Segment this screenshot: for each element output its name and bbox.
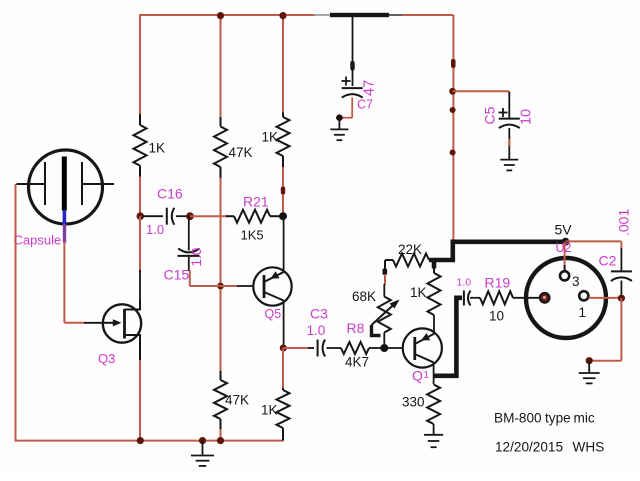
wire C16 left lead [143, 215, 163, 217]
svg-text:C3: C3 [310, 306, 328, 322]
wire C2 bottom lead [620, 281, 622, 298]
capacitor C5 [499, 118, 520, 120]
wire Q5 collector vertical [283, 216, 285, 271]
wire Q5 emitter vertical [283, 301, 285, 349]
transistor Q3 [103, 304, 141, 342]
wire R8 right lead [369, 347, 383, 349]
wire x140 mid [139, 177, 141, 217]
wire C3 left lead [308, 347, 314, 349]
wire y216 to R21 [190, 215, 228, 217]
resistor R21 [234, 210, 270, 223]
svg-text:4K7: 4K7 [345, 355, 369, 370]
node R21 right junction [279, 212, 287, 220]
wire x283 top [282, 14, 284, 113]
wire x283 bottom resistor leads [282, 348, 284, 390]
node top rail x220 [217, 12, 224, 19]
resistor R8 [341, 342, 369, 354]
svg-text:47K: 47K [229, 145, 253, 160]
svg-text:1K5: 1K5 [241, 228, 264, 243]
connector U2 body [526, 258, 606, 338]
wire x220 top [220, 14, 222, 117]
capsule left plate [44, 162, 46, 205]
wire to bottom ground [202, 441, 204, 456]
wire capsule left down [15, 184, 17, 441]
svg-text:330: 330 [402, 395, 425, 410]
svg-text:R21: R21 [243, 194, 269, 210]
wire C5 branch horizontal [453, 90, 510, 92]
node tick x283 [281, 187, 285, 195]
svg-text:1.0: 1.0 [307, 323, 326, 338]
68K wiper arrow [372, 303, 396, 325]
svg-text:1K: 1K [262, 130, 279, 145]
wire x283 to R21 node [282, 167, 284, 216]
node C16 right junction [186, 212, 194, 220]
top bus bar (thick) [330, 13, 389, 17]
capsule blue segment [63, 210, 67, 225]
resistor 330 [427, 385, 440, 425]
capacitor C15 (curved plate on top, flat below) [178, 248, 199, 252]
capacitor C3 [317, 340, 319, 357]
node C7 ground junction [336, 114, 343, 121]
node bottom x140 [137, 437, 144, 444]
thick wire 22K right to rail and 5V [429, 242, 566, 260]
resistor 22K leads [385, 259, 393, 261]
wire y348 red [283, 347, 310, 349]
svg-text:Q5: Q5 [265, 307, 282, 321]
svg-text:1: 1 [579, 305, 587, 320]
wire bottom rail [15, 440, 284, 442]
pin 3 [560, 271, 569, 280]
resistor 47K (upper) [214, 127, 227, 168]
svg-text:R8: R8 [347, 320, 365, 336]
resistor 47K upper leads [220, 117, 222, 127]
resistor 22K [393, 254, 429, 267]
node output ground junction [586, 357, 593, 364]
node base junction [380, 344, 388, 352]
svg-text:1K: 1K [261, 403, 278, 418]
svg-text:1K: 1K [149, 141, 166, 156]
svg-text:C15: C15 [164, 267, 190, 283]
wire C3 right lead [327, 347, 342, 349]
68K wiper short to bottom [372, 325, 381, 336]
ground (C5) [500, 159, 518, 161]
wire x140 lower [139, 216, 141, 272]
wire x220 middle [220, 178, 222, 371]
wire pin1 to C2 node [589, 297, 622, 299]
node 5V [562, 238, 570, 246]
node tick on C7 lead [350, 61, 354, 71]
wire C7 top lead [352, 16, 354, 86]
ground (XLR) [579, 372, 600, 374]
wire to ground (XLR) [588, 361, 590, 373]
node junction to C5 branch [449, 88, 456, 95]
wire C15 top lead [188, 216, 190, 250]
wire C5 top lead [508, 92, 510, 119]
wire Q3 source down [139, 360, 141, 441]
wire C7 bottom lead (red) [351, 98, 353, 118]
svg-text:Q: Q [412, 368, 423, 384]
resistor 1K (Q1 collector) [428, 273, 441, 315]
capsule right lead [82, 183, 114, 185]
resistor R 1K left column leads [139, 114, 141, 125]
resistor 1K (x283 upper) [277, 117, 290, 156]
resistor R19 [480, 291, 513, 304]
capacitor C5 plus sign [499, 112, 508, 114]
node tick on right rail [450, 107, 456, 113]
svg-text:47: 47 [362, 80, 378, 96]
svg-text:5V: 5V [555, 222, 573, 238]
wire 5V to pin3 [564, 242, 566, 266]
capsule diaphragm (thick bar) [62, 157, 67, 211]
wire C5 bottom lead [508, 128, 510, 160]
wire top rail thin lead-out [389, 14, 403, 16]
svg-text:C7: C7 [357, 98, 373, 112]
capsule purple segment [63, 224, 66, 243]
svg-text:1: 1 [424, 370, 430, 381]
resistor R21 leads [226, 215, 234, 217]
wire 330 to ground [433, 424, 435, 435]
resistor 1K (x283 lower) [277, 390, 290, 428]
wire x140 top [139, 14, 141, 114]
svg-text:mic: mic [574, 411, 595, 426]
transistor Q1 [403, 328, 442, 367]
ground (330) [424, 434, 443, 436]
node bottom ground tap [199, 437, 206, 444]
svg-text:12/20/2015: 12/20/2015 [495, 440, 563, 455]
resistor 47K (lower) [214, 380, 227, 419]
svg-text:68K: 68K [352, 289, 376, 304]
resistor 47K lower leads [220, 371, 222, 380]
wire Q1 collector vertical [433, 331, 435, 334]
Q3 source lead [125, 335, 141, 361]
svg-text:22K: 22K [398, 242, 422, 257]
capsule body [29, 150, 103, 224]
node tick on right rail [451, 59, 456, 68]
wire Q3 gate lead [84, 322, 104, 324]
svg-text:1K: 1K [410, 285, 427, 300]
capacitor C16 [166, 208, 168, 225]
svg-text:R19: R19 [485, 275, 511, 291]
wire y286 to Q5 base [190, 285, 238, 287]
svg-text:.001: .001 [616, 209, 632, 236]
wire C2 top lead [620, 248, 622, 271]
capacitor C7 plus sign [342, 80, 351, 82]
transistor Q5 [253, 267, 291, 305]
capacitor C7 [342, 87, 363, 89]
thick wire Q1 emitter to coupling cap [434, 298, 462, 376]
wire down to output ground [620, 298, 622, 361]
svg-text:BM-800: BM-800 [494, 411, 542, 426]
wire top rail right segment [402, 14, 453, 16]
node Q5 emitter junction [280, 344, 287, 351]
svg-text:1.0: 1.0 [146, 222, 164, 237]
svg-text:Capsule: Capsule [14, 233, 62, 248]
wire Q1 emitter vertical [433, 362, 435, 384]
ground (bottom rail) [191, 455, 214, 457]
wire top rail left segment [140, 14, 315, 16]
svg-text:Q3: Q3 [98, 351, 115, 366]
svg-text:47K: 47K [225, 393, 249, 408]
capsule left lead [17, 183, 46, 185]
red tick on C5 lead [508, 139, 510, 146]
svg-text:C5: C5 [482, 106, 498, 124]
svg-text:C16: C16 [157, 186, 183, 202]
svg-text:10: 10 [518, 109, 534, 125]
wire 68K bottom lead [383, 333, 385, 349]
wire C15 bottom lead [188, 257, 190, 271]
svg-text:3: 3 [572, 274, 580, 289]
svg-text:1.0: 1.0 [189, 248, 204, 267]
resistor 1K (left column) [134, 125, 147, 166]
svg-text:type: type [545, 411, 571, 426]
svg-text:10: 10 [489, 309, 504, 324]
svg-text:WHS: WHS [573, 440, 605, 455]
wire to Q1 base [384, 347, 403, 349]
wire capsule to Q3 gate [64, 322, 85, 324]
wire x220 bottom [220, 429, 222, 441]
wire C16 right lead [176, 215, 188, 217]
svg-text:U2: U2 [556, 241, 572, 255]
wire top rail thin gray lead-in [313, 14, 331, 16]
node tick on right rail [450, 150, 456, 156]
node C16 left junction [137, 212, 145, 220]
resistor 1K (Q1 collector) leads [433, 268, 435, 273]
capsule right plate [81, 162, 83, 205]
wire 5V to C2 top [566, 240, 622, 242]
wire capsule output down [63, 242, 65, 323]
pin 1 [579, 291, 588, 300]
wire right rail vertical x=453 [452, 15, 454, 241]
wire cap to R19 [470, 297, 480, 299]
svg-text:1.0: 1.0 [457, 277, 472, 289]
svg-text:C2: C2 [599, 253, 617, 269]
capacitor C2 [611, 270, 632, 272]
capacitor 1.0 coupling [463, 291, 465, 306]
wire 22K left corner down to 68K [383, 269, 388, 276]
Q3 drain lead [125, 300, 141, 310]
node top rail x283 [279, 12, 286, 19]
node bottom x220 [217, 437, 224, 444]
wire to C7 ground [338, 118, 340, 130]
wire R19 to XLR pin2 [513, 297, 540, 299]
resistor 1K x283 leads [282, 113, 284, 118]
potentiometer 68K [378, 297, 391, 333]
ground (C7) [330, 128, 348, 130]
Q3 gate arrow [104, 322, 119, 324]
node x220 y286 junction [217, 283, 224, 290]
pin 2 [540, 293, 549, 302]
node C2/pin1 junction [618, 295, 625, 302]
